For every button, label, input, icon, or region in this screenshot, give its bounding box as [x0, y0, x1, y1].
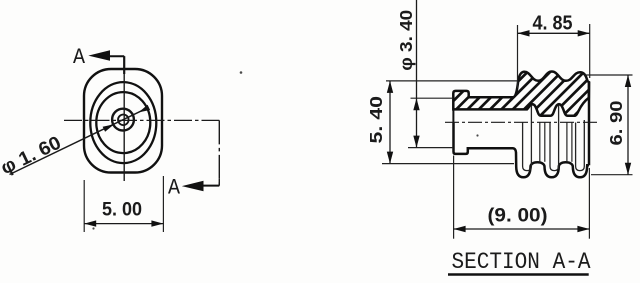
svg-text:4. 85: 4. 85 — [533, 13, 573, 35]
cutting plane line, right vertical segment — [218, 120, 220, 185]
svg-text:(9. 00): (9. 00) — [488, 206, 548, 227]
section arrow A bottom — [182, 181, 220, 192]
dimension text phi 1.60 — [0, 133, 65, 180]
dimension 6.90 extension lines — [585, 75, 633, 175]
front view outline (rounded rectangle) — [84, 69, 162, 173]
svg-text:5. 00: 5. 00 — [102, 200, 142, 221]
vertical centerline / cutting line — [123, 56, 125, 181]
neck end face edge — [452, 109, 454, 123]
horizontal centerline (dash-dot) — [64, 119, 219, 121]
section hatching — [408, 53, 640, 135]
inner bore silhouette loops, bottom half — [523, 106, 585, 171]
title SECTION A-A — [448, 249, 591, 276]
svg-text:6. 90: 6. 90 — [606, 100, 626, 145]
dimension text 4.85 — [533, 13, 573, 35]
dimension 6.90 line with arrows — [625, 75, 631, 175]
svg-text:SECTION A-A: SECTION A-A — [452, 249, 592, 276]
grommet section outline, top half — [453, 72, 589, 116]
dimension 5.00 line with arrows — [84, 220, 163, 226]
outer ellipse — [90, 82, 156, 163]
dimension 4.85 extension lines — [518, 24, 590, 88]
dimension text phi 3.40 (rotated) — [396, 10, 416, 71]
dimension (9.00) extension lines — [454, 156, 590, 239]
hole circle phi1.60 — [112, 109, 134, 131]
dimension phi 3.40 extension lines — [408, 98, 453, 147]
dimension 5.40 extension lines — [382, 81, 517, 164]
dimension phi 3.40 line with arrows — [413, 0, 419, 148]
right end face edge — [588, 82, 591, 165]
grommet exterior outline, bottom half — [454, 122, 590, 177]
svg-text:A: A — [168, 176, 181, 201]
svg-text:φ 3. 40: φ 3. 40 — [396, 10, 416, 71]
dimension 5.00 extension lines — [84, 176, 163, 232]
centerline of section view (dash-dot) — [445, 121, 598, 123]
dimension text 6.90 (rotated) — [606, 100, 626, 145]
dimension 4.85 line with arrows — [518, 30, 590, 36]
svg-text:5. 40: 5. 40 — [366, 96, 386, 144]
dimension 5.40 line with arrows — [387, 81, 393, 164]
inner groove edge lines, bottom half — [540, 123, 572, 162]
dimension text (9.00) — [488, 206, 548, 227]
innermost circle — [118, 115, 129, 126]
scan specks — [92, 71, 478, 229]
dimension text 5.00 — [102, 200, 142, 221]
dimension text 5.40 (rotated) — [366, 96, 386, 144]
section arrow A top — [88, 50, 124, 61]
label A bottom — [168, 176, 181, 201]
inner ellipse — [96, 92, 150, 153]
svg-text:A: A — [73, 45, 86, 70]
leader line phi 1.60 — [10, 105, 151, 175]
label A top — [73, 45, 86, 70]
dimension (9.00) line with arrows — [454, 226, 590, 232]
